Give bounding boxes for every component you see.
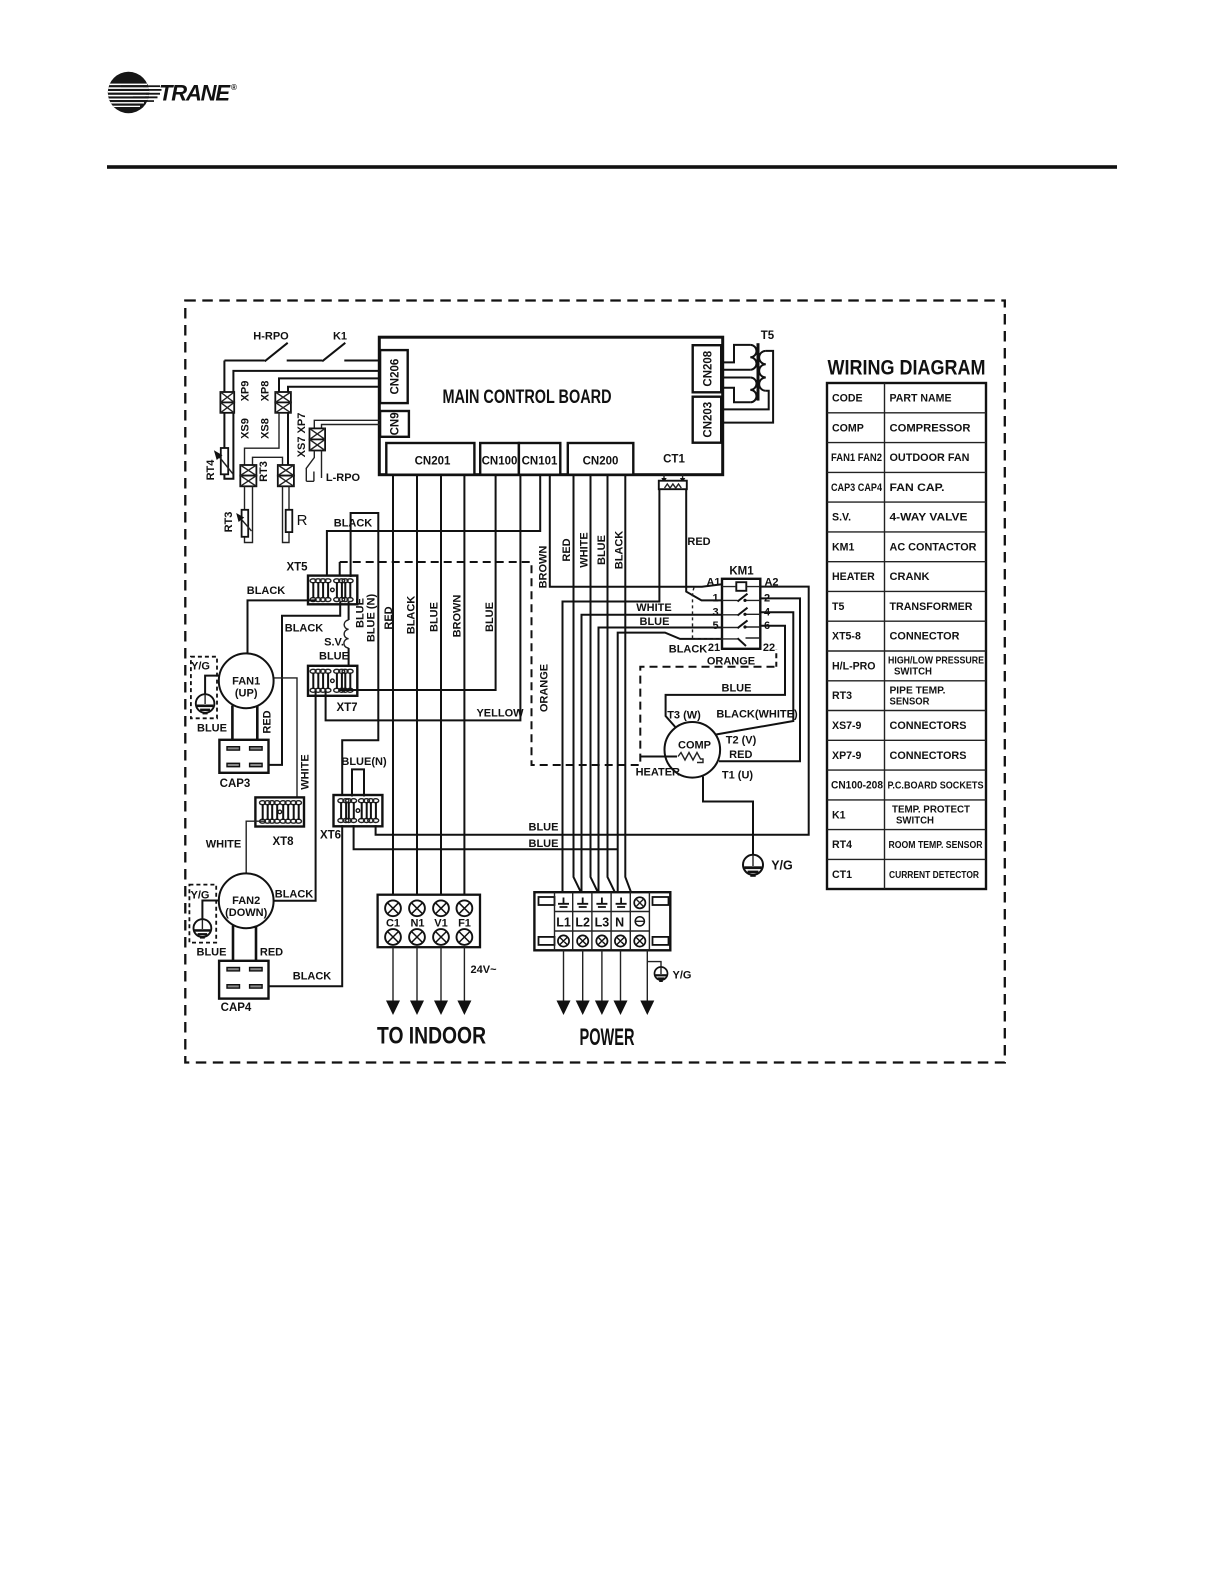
wire RED CT1 to KM1-1 xyxy=(686,489,722,600)
svg-text:XT7: XT7 xyxy=(336,702,357,714)
wire BLUE(N) jumper on XT6 xyxy=(341,756,387,797)
svg-text:COMPRESSOR: COMPRESSOR xyxy=(890,422,971,434)
ground Y/G FAN2 xyxy=(189,885,219,943)
socket CN203 xyxy=(693,397,722,443)
svg-text:22: 22 xyxy=(763,642,775,654)
svg-text:CONNECTORS: CONNECTORS xyxy=(890,720,967,732)
switch K1 xyxy=(322,331,347,362)
compressor COMP xyxy=(665,710,757,782)
svg-text:RT4: RT4 xyxy=(205,459,217,481)
terminal block XT6 xyxy=(320,795,382,842)
svg-text:L2: L2 xyxy=(575,916,590,930)
svg-text:BLACK: BLACK xyxy=(285,623,324,635)
svg-text:RED: RED xyxy=(262,710,274,733)
svg-text:L1: L1 xyxy=(556,916,571,930)
wire YELLOW XT7 to CN101 xyxy=(326,475,525,721)
main control board U1 xyxy=(379,337,722,475)
svg-text:RED: RED xyxy=(729,749,752,761)
svg-text:CONNECTORS: CONNECTORS xyxy=(890,750,967,762)
svg-text:RED: RED xyxy=(561,538,573,561)
svg-text:CN9: CN9 xyxy=(390,412,402,435)
diagram dashed border xyxy=(185,301,1005,1063)
wire BLUE FAN2 to CAP4 xyxy=(197,926,233,968)
svg-text:®: ® xyxy=(231,83,237,92)
svg-text:(DOWN): (DOWN) xyxy=(225,907,267,919)
svg-text:BLACK: BLACK xyxy=(406,596,418,635)
svg-text:TRANSFORMER: TRANSFORMER xyxy=(890,601,973,613)
socket CN200 xyxy=(568,443,634,475)
wire RT3 loop xyxy=(245,486,253,542)
svg-text:HEATER: HEATER xyxy=(636,767,680,779)
svg-text:CN208: CN208 xyxy=(702,350,714,386)
wire HEATER to ORANGE xyxy=(636,757,680,779)
svg-text:BLUE: BLUE xyxy=(722,683,752,695)
connector for R xyxy=(278,465,294,486)
svg-text:BLUE: BLUE xyxy=(197,723,227,735)
svg-text:PIPE TEMP.: PIPE TEMP. xyxy=(890,685,946,696)
svg-text:TO INDOOR: TO INDOOR xyxy=(377,1023,486,1050)
svg-text:K1: K1 xyxy=(333,331,347,343)
svg-text:CN201: CN201 xyxy=(415,456,451,468)
header rule xyxy=(107,165,1117,169)
svg-text:S.V.: S.V. xyxy=(324,637,344,649)
svg-text:XT8: XT8 xyxy=(272,836,294,848)
ground Y/G power xyxy=(647,962,691,982)
svg-text:CURRENT DETECTOR: CURRENT DETECTOR xyxy=(889,870,980,881)
svg-text:KM1: KM1 xyxy=(832,541,854,553)
svg-text:RT4: RT4 xyxy=(832,839,852,851)
svg-text:BLUE: BLUE xyxy=(429,602,441,632)
terminal block XT8 xyxy=(255,797,304,848)
wire BLACK CN200 to N xyxy=(625,475,631,894)
svg-text:BLACK: BLACK xyxy=(275,889,314,901)
wire BLACK XT5 to CAP3 xyxy=(261,602,341,765)
svg-text:(UP): (UP) xyxy=(235,688,258,700)
svg-text:ROOM TEMP. SENSOR: ROOM TEMP. SENSOR xyxy=(889,840,984,851)
svg-text:K1: K1 xyxy=(832,809,846,821)
svg-text:COMP: COMP xyxy=(832,422,864,434)
svg-text:BLUE: BLUE xyxy=(484,602,496,632)
svg-text:F1: F1 xyxy=(458,918,471,930)
svg-text:WHITE: WHITE xyxy=(636,602,671,614)
terminal block XT5 xyxy=(286,562,357,605)
socket CN101 xyxy=(519,443,560,475)
svg-text:XT6: XT6 xyxy=(320,830,341,842)
wire ORANGE dashed XT5 to KM1-22 xyxy=(340,562,777,765)
svg-text:FAN CAP.: FAN CAP. xyxy=(890,482,945,494)
svg-text:CRANK: CRANK xyxy=(890,571,930,583)
svg-text:XT5: XT5 xyxy=(286,562,308,574)
svg-text:BLUE(N): BLUE(N) xyxy=(341,756,387,768)
svg-text:KM1: KM1 xyxy=(729,566,754,578)
wire RED CN201-1 to C1 xyxy=(392,475,394,901)
svg-text:3: 3 xyxy=(712,606,718,618)
svg-text:WIRING DIAGRAM: WIRING DIAGRAM xyxy=(828,357,986,380)
svg-text:BROWN: BROWN xyxy=(452,595,464,638)
svg-text:BLACK: BLACK xyxy=(247,585,286,597)
svg-text:BLACK: BLACK xyxy=(614,531,626,570)
socket CN100 xyxy=(480,443,519,475)
wire BLUE(N) XT5 to XT6 xyxy=(342,513,378,797)
svg-text:OUTDOOR FAN: OUTDOOR FAN xyxy=(890,452,970,464)
wire XS8 to R connector xyxy=(287,413,289,465)
switch H-RPO xyxy=(253,331,289,362)
wire RED CN200 to L2 xyxy=(574,475,582,894)
resistor R xyxy=(286,510,308,532)
svg-text:XS7-9: XS7-9 xyxy=(832,720,862,732)
ground Y/G FAN1 xyxy=(191,657,219,719)
svg-text:FAN1 FAN2: FAN1 FAN2 xyxy=(831,452,882,464)
svg-text:T5: T5 xyxy=(761,330,775,342)
svg-text:H-RPO: H-RPO xyxy=(253,331,289,343)
connector XP8/XS8 xyxy=(260,381,291,439)
svg-text:V1: V1 xyxy=(434,918,447,930)
svg-text:BLUE: BLUE xyxy=(197,947,227,959)
svg-text:H/L-PRO: H/L-PRO xyxy=(832,661,876,673)
svg-text:BLUE (N): BLUE (N) xyxy=(366,594,378,643)
wire BLUE CN201-3 to V1 xyxy=(440,475,442,901)
connector RT3 pair xyxy=(240,461,270,486)
wire RED FAN2 to CAP4 xyxy=(256,926,283,968)
svg-text:5: 5 xyxy=(712,620,718,632)
svg-text:BLUE: BLUE xyxy=(319,651,349,663)
Trane logo circle xyxy=(104,72,166,113)
socket CN201 xyxy=(386,443,474,475)
wire BLUE XT7 to CN100 xyxy=(339,475,495,690)
svg-text:ORANGE: ORANGE xyxy=(539,664,551,712)
svg-text:COMP: COMP xyxy=(678,740,711,752)
wire BROWN CN101 to KM1 A1 xyxy=(550,475,722,587)
svg-text:R: R xyxy=(297,512,308,529)
svg-text:CN101: CN101 xyxy=(522,456,558,468)
svg-text:RT3: RT3 xyxy=(223,512,235,533)
contactor KM1 xyxy=(693,566,779,655)
svg-text:T3 (W): T3 (W) xyxy=(667,710,701,722)
wire BLACK XT5 to FAN1 xyxy=(247,585,316,654)
svg-text:CN100-208: CN100-208 xyxy=(831,780,883,792)
wire RT4 loop xyxy=(224,361,379,479)
svg-text:XT5-8: XT5-8 xyxy=(832,631,861,643)
svg-text:A1: A1 xyxy=(706,577,720,589)
wire H-RPO/K1 to CN206 xyxy=(224,360,379,362)
svg-text:XP9: XP9 xyxy=(240,381,252,402)
svg-text:POWER: POWER xyxy=(580,1024,635,1051)
wire XS8 to RT3 connector xyxy=(245,413,280,465)
svg-text:WHITE: WHITE xyxy=(300,754,312,789)
svg-text:BLUE: BLUE xyxy=(529,822,559,834)
svg-text:TRANE: TRANE xyxy=(159,81,231,106)
svg-text:CODE: CODE xyxy=(832,393,863,405)
svg-text:SENSOR: SENSOR xyxy=(890,696,931,707)
wire BLACK XT6 to CAP4 xyxy=(261,825,343,986)
svg-text:T1 (U): T1 (U) xyxy=(722,770,754,782)
wire BLUE XT6 to N xyxy=(354,825,618,850)
svg-text:BLACK: BLACK xyxy=(669,644,708,656)
svg-text:TEMP. PROTECT: TEMP. PROTECT xyxy=(892,804,970,815)
socket CN206 xyxy=(380,350,408,403)
svg-text:1: 1 xyxy=(712,593,718,605)
wire BLACK FAN2 to XT7 xyxy=(274,691,316,901)
svg-text:C1: C1 xyxy=(386,918,400,930)
svg-text:Y/G: Y/G xyxy=(771,859,793,873)
ground Y/G COMP xyxy=(743,855,793,877)
terminal strip XT-LP C1 N1 V1 F1 xyxy=(378,895,480,948)
svg-text:Y/G: Y/G xyxy=(191,661,210,673)
wire BLUE FAN1 to CAP3 xyxy=(197,706,232,748)
wire L1 to CT1 xyxy=(563,489,660,893)
wire XP8 to CN206 xyxy=(279,378,379,392)
arrows TO INDOOR xyxy=(386,947,471,1015)
svg-text:PART NAME: PART NAME xyxy=(890,393,952,405)
svg-text:XS9: XS9 xyxy=(240,418,252,439)
svg-text:BLACK: BLACK xyxy=(293,971,332,983)
wire BLACK CN101 to XT5 xyxy=(327,475,540,577)
wire BROWN CN201-4 to F1 xyxy=(463,475,465,901)
wire BLUE KM1-6 to COMP T3 xyxy=(666,626,785,730)
svg-text:SWITCH: SWITCH xyxy=(896,815,934,826)
wire RED KM1-2 to COMP xyxy=(719,598,800,761)
terminal strip POWER xyxy=(534,892,670,950)
svg-text:CT1: CT1 xyxy=(663,454,685,466)
svg-text:ORANGE: ORANGE xyxy=(707,656,755,668)
wire T1 to ground xyxy=(703,777,753,856)
transformer T5 xyxy=(721,330,775,423)
svg-text:BLACK: BLACK xyxy=(334,518,373,530)
thermistor RT3 xyxy=(223,510,252,537)
svg-text:FAN2: FAN2 xyxy=(232,895,260,907)
svg-text:RED: RED xyxy=(687,536,710,548)
parts table xyxy=(827,383,986,889)
svg-text:CONNECTOR: CONNECTOR xyxy=(890,631,960,643)
svg-text:CAP3 CAP4: CAP3 CAP4 xyxy=(831,482,882,494)
wire BLUE CN200 to L3 xyxy=(608,475,616,894)
fan motor FAN1 xyxy=(219,653,274,708)
svg-text:AC CONTACTOR: AC CONTACTOR xyxy=(890,541,977,553)
svg-text:T2 (V): T2 (V) xyxy=(726,735,757,747)
svg-text:BLUE: BLUE xyxy=(529,838,559,850)
svg-text:BROWN: BROWN xyxy=(538,546,550,589)
thermistor RT4 xyxy=(205,448,233,480)
wire WHITE to KM1-3 xyxy=(582,602,723,894)
svg-text:P.C.BOARD SOCKETS: P.C.BOARD SOCKETS xyxy=(888,781,984,792)
svg-text:CAP3: CAP3 xyxy=(220,778,251,790)
svg-text:YELLOW: YELLOW xyxy=(476,708,524,720)
svg-text:MAIN CONTROL BOARD: MAIN CONTROL BOARD xyxy=(443,386,612,408)
wire WHITE XT8 to FAN2 xyxy=(206,821,264,873)
socket CN9 xyxy=(380,411,409,437)
wire BLUE to KM1-5 xyxy=(599,616,723,893)
svg-text:HEATER: HEATER xyxy=(832,571,875,583)
current detector CT1 xyxy=(659,454,687,490)
socket CN208 xyxy=(693,345,722,392)
svg-text:BLUE: BLUE xyxy=(596,535,608,565)
svg-text:RT3: RT3 xyxy=(258,461,270,482)
svg-text:L-RPO: L-RPO xyxy=(326,472,361,484)
wire BLACK CN201-2 to N1 xyxy=(416,475,418,901)
svg-text:WHITE: WHITE xyxy=(579,532,591,567)
svg-text:XS7 XP7: XS7 XP7 xyxy=(296,413,308,458)
svg-text:24V~: 24V~ xyxy=(471,964,498,976)
wire WHITE CN200 to L2 xyxy=(591,475,599,894)
svg-text:21: 21 xyxy=(708,642,720,654)
svg-text:HIGH/LOW PRESSURE: HIGH/LOW PRESSURE xyxy=(888,656,984,667)
svg-text:4-WAY VALVE: 4-WAY VALVE xyxy=(890,512,968,524)
capacitor CAP3 xyxy=(219,740,268,790)
switch L-RPO xyxy=(306,451,361,485)
connector XS7/XP7 xyxy=(296,413,325,458)
svg-text:CN203: CN203 xyxy=(702,402,714,438)
svg-text:N: N xyxy=(615,916,624,930)
svg-text:CAP4: CAP4 xyxy=(221,1002,252,1014)
svg-text:FAN1: FAN1 xyxy=(232,676,260,688)
capacitor CAP4 xyxy=(219,961,268,1014)
svg-text:RED: RED xyxy=(383,606,395,629)
svg-text:RT3: RT3 xyxy=(832,690,852,702)
wire BLACK to KM1-21 xyxy=(618,633,722,894)
wire BLUE A2 to XT6 xyxy=(376,587,809,835)
svg-text:Y/G: Y/G xyxy=(673,970,692,982)
wire WHITE FAN1 to XT8 xyxy=(274,678,312,798)
wire R loop xyxy=(283,486,290,542)
svg-text:T5: T5 xyxy=(832,601,844,613)
solenoid coil S.V. xyxy=(319,602,349,667)
svg-text:CT1: CT1 xyxy=(832,869,852,881)
svg-text:XP8: XP8 xyxy=(260,381,272,402)
svg-text:BLACK(WHITE): BLACK(WHITE) xyxy=(716,709,798,721)
svg-text:CN100: CN100 xyxy=(482,456,518,468)
svg-text:L3: L3 xyxy=(595,916,610,930)
svg-text:N1: N1 xyxy=(410,918,424,930)
wire R connector to RT3 connector xyxy=(253,457,283,465)
svg-text:WHITE: WHITE xyxy=(206,839,241,851)
svg-text:CN200: CN200 xyxy=(583,456,619,468)
svg-text:CN206: CN206 xyxy=(389,359,401,395)
svg-text:XS8: XS8 xyxy=(260,418,272,439)
wire BLACK(WHITE) KM1-4 to COMP T2 xyxy=(716,612,798,734)
svg-text:BLUE: BLUE xyxy=(640,616,670,628)
svg-text:SWITCH: SWITCH xyxy=(894,667,932,678)
arrows POWER xyxy=(557,950,655,1015)
svg-text:RED: RED xyxy=(260,947,283,959)
terminal block XT7 xyxy=(308,666,358,714)
wire RED FAN1 to CAP3 xyxy=(257,706,273,748)
wire XS7 to CN9 xyxy=(314,420,380,428)
svg-text:XP7-9: XP7-9 xyxy=(832,750,862,762)
connector XP9/XS9 xyxy=(220,381,251,439)
svg-text:S.V.: S.V. xyxy=(832,512,851,524)
fan motor FAN2 xyxy=(219,873,274,928)
